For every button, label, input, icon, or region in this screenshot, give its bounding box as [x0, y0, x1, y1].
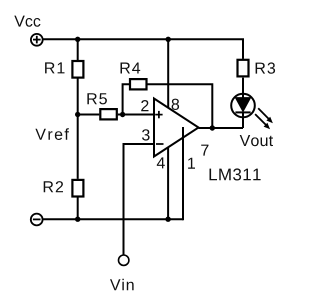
- pin label 1: [188, 158, 195, 169]
- label R4: [121, 63, 141, 74]
- resistor R2: [72, 180, 83, 197]
- label R3: [256, 62, 276, 73]
- wire pin 8 from top rail: [167, 39, 169, 108]
- wire R1 bottom to R2 top: [77, 78, 79, 178]
- node junction ground / R2: [75, 217, 80, 222]
- node junction top rail / pin 8 column: [166, 37, 171, 42]
- pin label 7: [201, 145, 208, 156]
- ground terminal (-): [31, 214, 43, 226]
- label R5: [87, 93, 107, 104]
- LED D1: [231, 94, 255, 118]
- label Vcc: [14, 16, 40, 27]
- resistor R1: [72, 61, 83, 78]
- node junction top rail / R1 column: [75, 37, 80, 42]
- pin label 2: [141, 100, 148, 111]
- wire Vcc top rail to R3: [43, 39, 243, 59]
- label R1: [45, 62, 64, 73]
- wire R2 bottom to ground rail: [77, 197, 79, 219]
- label R2: [44, 181, 63, 192]
- Vcc terminal (+): [31, 34, 43, 46]
- label LM311: [210, 168, 261, 180]
- resistor R5: [100, 109, 117, 119]
- Vin terminal: [119, 255, 129, 265]
- node junction R5 / R4: [120, 112, 125, 117]
- pin label 4: [157, 157, 165, 168]
- wire R5 left: [78, 114, 100, 116]
- LED light arrow 1: [258, 108, 273, 123]
- label Vout: [240, 135, 273, 146]
- op-amp U1 LM311 triangle: [154, 99, 199, 157]
- wire R3 bottom to LED: [242, 78, 244, 98]
- wire pin 3 / Vin: [124, 144, 155, 255]
- pin label 8: [172, 99, 180, 110]
- wire pin 4 down: [167, 147, 169, 219]
- node junction R5 tap: [75, 112, 80, 117]
- wire output pin 7: [199, 127, 244, 129]
- resistor R3: [238, 60, 249, 77]
- node junction output / R4 feedback: [210, 125, 215, 130]
- wire R1 column top: [77, 39, 79, 60]
- wire R4 right to output node: [148, 84, 213, 128]
- wire pin 1 down: [182, 127, 184, 220]
- wire R5 right to pin 2: [118, 114, 154, 116]
- resistor R4: [130, 79, 147, 89]
- node junction ground / pin 4: [165, 217, 170, 222]
- LED light arrow 2: [255, 114, 270, 129]
- wire ground rail: [43, 218, 183, 220]
- wire LED bottom lead: [242, 112, 244, 128]
- plus input mark: [155, 111, 162, 118]
- minus input mark: [156, 143, 164, 145]
- wire R4 left drop: [123, 84, 129, 114]
- label Vref: [35, 128, 69, 140]
- pin label 3: [142, 129, 150, 140]
- label Vin: [110, 279, 134, 291]
